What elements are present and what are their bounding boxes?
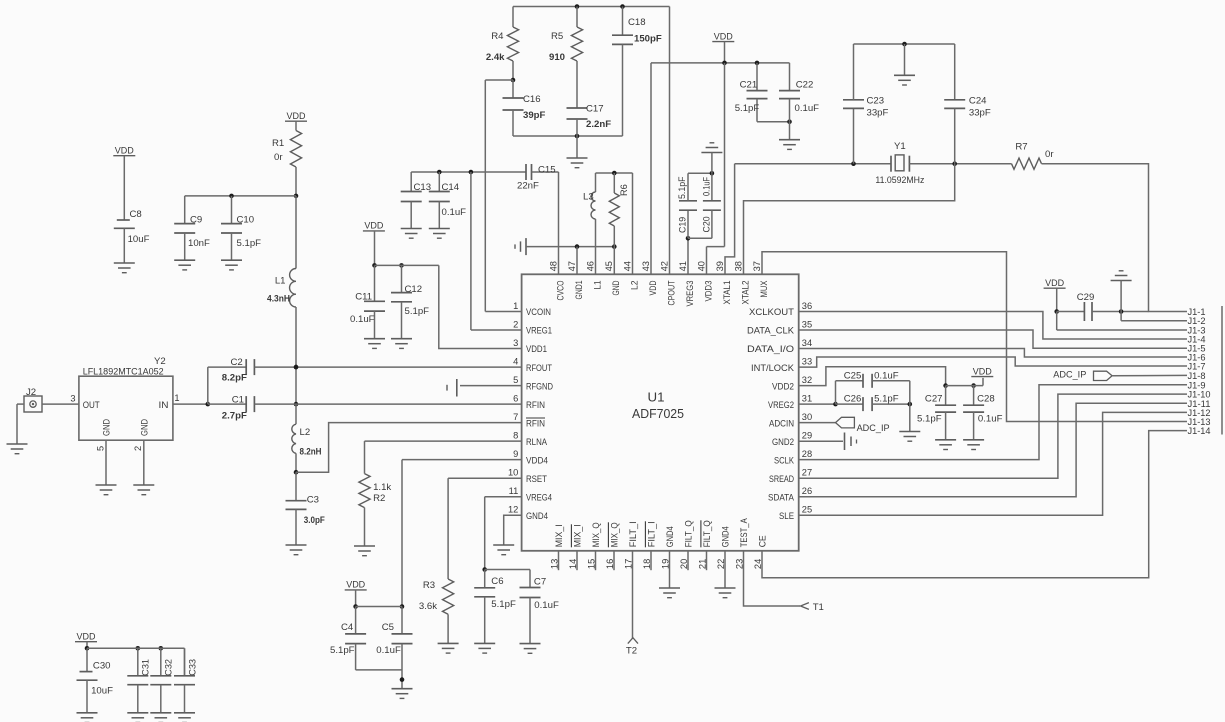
svg-text:5.1pF: 5.1pF — [237, 238, 262, 249]
svg-text:11.0592MHz: 11.0592MHz — [875, 175, 924, 186]
svg-text:C30: C30 — [93, 660, 111, 671]
svg-text:C26: C26 — [844, 394, 862, 405]
svg-text:R4: R4 — [491, 31, 504, 42]
svg-text:C1: C1 — [232, 394, 244, 405]
svg-text:C8: C8 — [130, 209, 142, 220]
svg-text:GND: GND — [611, 280, 622, 295]
svg-text:1: 1 — [513, 301, 518, 311]
svg-text:GND2: GND2 — [772, 437, 794, 448]
svg-text:ADC_IP: ADC_IP — [1053, 370, 1086, 381]
svg-text:C24: C24 — [969, 96, 987, 107]
svg-text:FILT_Q: FILT_Q — [684, 520, 695, 547]
svg-text:SREAD: SREAD — [769, 474, 794, 485]
svg-text:C11: C11 — [355, 291, 372, 302]
svg-text:J2: J2 — [26, 387, 36, 398]
svg-text:FILT_Q: FILT_Q — [702, 520, 713, 547]
svg-text:C7: C7 — [534, 576, 546, 587]
svg-text:5.1pF: 5.1pF — [874, 394, 899, 405]
svg-text:MUX: MUX — [759, 280, 770, 297]
svg-text:XTAL1: XTAL1 — [722, 281, 733, 305]
svg-text:0.1uF: 0.1uF — [874, 371, 899, 382]
svg-text:T1: T1 — [813, 602, 824, 613]
svg-text:45: 45 — [604, 261, 614, 271]
svg-text:DATA_CLK: DATA_CLK — [747, 326, 795, 337]
svg-text:VDD: VDD — [346, 580, 365, 591]
svg-text:VDD4: VDD4 — [526, 455, 549, 466]
svg-text:R2: R2 — [373, 493, 385, 504]
svg-text:27: 27 — [802, 468, 812, 478]
svg-text:C12: C12 — [405, 284, 423, 295]
svg-text:FILT_I: FILT_I — [628, 521, 639, 547]
svg-text:5.1pF: 5.1pF — [677, 176, 687, 199]
svg-text:30: 30 — [802, 412, 812, 422]
svg-text:LFL1892MTC1A052: LFL1892MTC1A052 — [83, 367, 164, 378]
svg-text:VREG4: VREG4 — [526, 492, 553, 503]
svg-text:VDD: VDD — [973, 366, 992, 377]
svg-text:10: 10 — [508, 468, 518, 478]
svg-text:Y2: Y2 — [154, 356, 166, 367]
svg-text:0.1uF: 0.1uF — [702, 176, 712, 196]
svg-text:Y1: Y1 — [894, 141, 906, 152]
svg-text:40: 40 — [696, 261, 706, 271]
svg-text:0.1uF: 0.1uF — [534, 600, 559, 611]
svg-text:5.1pF: 5.1pF — [917, 414, 942, 425]
svg-text:R6: R6 — [619, 184, 629, 196]
svg-text:10nF: 10nF — [188, 238, 210, 249]
svg-text:43: 43 — [641, 261, 651, 271]
svg-text:C6: C6 — [491, 576, 503, 587]
svg-text:1.1k: 1.1k — [373, 482, 391, 493]
svg-text:L3: L3 — [583, 192, 594, 203]
svg-text:GND: GND — [139, 419, 150, 436]
svg-text:RLNA: RLNA — [526, 437, 547, 448]
svg-text:C13: C13 — [414, 182, 432, 193]
svg-text:ADCIN: ADCIN — [769, 418, 794, 429]
svg-text:2.2nF: 2.2nF — [586, 119, 611, 130]
svg-text:GND1: GND1 — [574, 281, 585, 300]
svg-text:39pF: 39pF — [523, 110, 546, 121]
svg-text:C25: C25 — [844, 371, 862, 382]
svg-text:MIX_Q: MIX_Q — [610, 522, 621, 547]
svg-text:VDD1: VDD1 — [526, 344, 547, 355]
svg-text:47: 47 — [567, 261, 577, 271]
svg-text:C32: C32 — [164, 659, 174, 676]
svg-text:5.1pF: 5.1pF — [330, 645, 355, 656]
svg-text:GND4: GND4 — [721, 526, 732, 548]
svg-text:42: 42 — [659, 261, 669, 271]
svg-text:C23: C23 — [867, 96, 885, 107]
svg-text:22nF: 22nF — [517, 181, 539, 192]
svg-text:SLE: SLE — [779, 511, 794, 522]
svg-text:33: 33 — [802, 357, 812, 367]
svg-text:C10: C10 — [237, 215, 255, 226]
svg-text:8.2nH: 8.2nH — [300, 447, 322, 458]
svg-text:33pF: 33pF — [867, 108, 889, 119]
svg-text:C33: C33 — [187, 659, 197, 676]
svg-text:L1: L1 — [275, 276, 286, 287]
svg-text:48: 48 — [548, 261, 558, 271]
svg-text:2.4k: 2.4k — [486, 52, 505, 63]
svg-text:0.1uF: 0.1uF — [442, 207, 467, 218]
svg-text:DATA_I/O: DATA_I/O — [747, 344, 794, 355]
svg-text:VDD: VDD — [714, 31, 733, 42]
svg-text:INT/LOCK: INT/LOCK — [751, 363, 795, 374]
svg-text:FILT_I: FILT_I — [647, 521, 658, 547]
svg-text:C21: C21 — [740, 79, 758, 90]
svg-text:26: 26 — [802, 486, 812, 496]
svg-text:RFGND: RFGND — [526, 381, 553, 392]
svg-text:31: 31 — [802, 394, 812, 404]
svg-text:C5: C5 — [382, 622, 394, 633]
svg-text:OUT: OUT — [83, 400, 100, 411]
svg-text:MIX_Q: MIX_Q — [591, 522, 602, 547]
svg-text:41: 41 — [678, 261, 688, 271]
svg-text:C14: C14 — [442, 182, 460, 193]
svg-text:0.1uF: 0.1uF — [795, 103, 820, 114]
svg-text:32: 32 — [802, 375, 812, 385]
svg-text:CE: CE — [758, 535, 769, 547]
svg-text:4.3nH: 4.3nH — [267, 294, 290, 305]
svg-text:C20: C20 — [702, 216, 712, 232]
svg-text:C4: C4 — [341, 622, 354, 633]
svg-text:5: 5 — [513, 375, 518, 385]
svg-text:C9: C9 — [190, 215, 202, 226]
svg-text:C3: C3 — [307, 495, 319, 506]
svg-text:5: 5 — [95, 446, 105, 451]
svg-text:XTAL2: XTAL2 — [741, 281, 752, 305]
svg-text:XCLKOUT: XCLKOUT — [749, 307, 794, 318]
svg-text:6: 6 — [513, 394, 518, 404]
svg-text:10uF: 10uF — [128, 234, 150, 245]
svg-text:SDATA: SDATA — [768, 492, 795, 503]
svg-text:150pF: 150pF — [634, 34, 662, 45]
svg-text:C29: C29 — [1077, 292, 1095, 303]
svg-text:CPOUT: CPOUT — [667, 280, 678, 305]
svg-text:C27: C27 — [925, 394, 943, 405]
svg-text:7: 7 — [513, 412, 518, 422]
svg-text:3.6k: 3.6k — [419, 601, 437, 612]
svg-text:0r: 0r — [274, 152, 283, 163]
svg-text:0.1uF: 0.1uF — [978, 414, 1003, 425]
svg-text:ADC_IP: ADC_IP — [857, 423, 890, 434]
svg-text:0r: 0r — [1045, 149, 1054, 160]
svg-text:T2: T2 — [626, 646, 637, 657]
svg-text:3.0pF: 3.0pF — [304, 515, 325, 526]
svg-text:R7: R7 — [1015, 142, 1027, 153]
svg-text:12: 12 — [508, 505, 518, 515]
svg-text:0.1uF: 0.1uF — [350, 314, 375, 325]
svg-text:5.1pF: 5.1pF — [735, 103, 760, 114]
svg-text:VDD: VDD — [648, 280, 659, 295]
svg-text:9: 9 — [513, 449, 518, 459]
svg-text:46: 46 — [585, 261, 595, 271]
svg-text:RFIN: RFIN — [526, 400, 545, 411]
svg-text:C15: C15 — [538, 164, 556, 175]
svg-text:VDD: VDD — [364, 221, 383, 232]
svg-text:10uF: 10uF — [91, 686, 113, 697]
svg-text:CVCO: CVCO — [556, 281, 567, 301]
svg-text:5.1pF: 5.1pF — [405, 306, 430, 317]
svg-text:4: 4 — [513, 357, 518, 367]
svg-text:L2: L2 — [300, 427, 311, 438]
svg-text:C2: C2 — [231, 357, 243, 368]
svg-text:0.1uF: 0.1uF — [376, 645, 401, 656]
svg-text:C22: C22 — [796, 79, 814, 90]
svg-text:VDD: VDD — [287, 111, 306, 122]
svg-text:GND: GND — [102, 419, 113, 436]
svg-text:RFIN: RFIN — [526, 418, 545, 429]
svg-text:VDD2: VDD2 — [772, 381, 794, 392]
svg-text:2.7pF: 2.7pF — [222, 410, 247, 421]
svg-text:TEST_A: TEST_A — [739, 518, 750, 547]
svg-text:1: 1 — [174, 393, 179, 403]
svg-text:L1: L1 — [593, 281, 604, 290]
svg-text:25: 25 — [802, 505, 812, 515]
svg-text:8: 8 — [513, 431, 518, 441]
svg-text:R3: R3 — [423, 580, 435, 591]
svg-text:2: 2 — [513, 320, 518, 330]
svg-text:VREG3: VREG3 — [685, 281, 696, 307]
svg-text:38: 38 — [733, 261, 743, 271]
svg-text:VREG1: VREG1 — [526, 326, 552, 337]
svg-text:34: 34 — [802, 338, 812, 348]
svg-text:44: 44 — [622, 261, 632, 271]
svg-text:28: 28 — [802, 449, 812, 459]
svg-text:MIX_I: MIX_I — [573, 524, 584, 547]
svg-text:37: 37 — [752, 261, 762, 271]
svg-text:C17: C17 — [586, 104, 604, 115]
svg-text:C28: C28 — [977, 394, 995, 405]
svg-text:8.2pF: 8.2pF — [222, 373, 247, 384]
svg-text:C18: C18 — [628, 17, 646, 28]
svg-text:L2: L2 — [630, 281, 641, 291]
svg-text:11: 11 — [509, 486, 519, 496]
svg-text:R5: R5 — [551, 31, 563, 42]
svg-text:RFOUT: RFOUT — [526, 363, 552, 374]
svg-text:MIX_I: MIX_I — [554, 524, 565, 547]
svg-text:C19: C19 — [678, 217, 688, 233]
svg-text:C16: C16 — [523, 94, 541, 105]
svg-text:910: 910 — [549, 52, 565, 63]
svg-text:U1: U1 — [648, 390, 665, 405]
svg-text:3: 3 — [70, 394, 75, 404]
svg-text:VDD: VDD — [1045, 278, 1064, 289]
svg-text:39: 39 — [715, 261, 725, 271]
svg-text:C31: C31 — [141, 659, 151, 676]
svg-text:3: 3 — [513, 338, 518, 348]
svg-text:GND4: GND4 — [665, 526, 676, 548]
svg-text:33pF: 33pF — [969, 108, 991, 119]
svg-text:IN: IN — [159, 400, 169, 411]
svg-text:36: 36 — [802, 301, 812, 311]
svg-text:35: 35 — [802, 320, 812, 330]
svg-text:RSET: RSET — [526, 474, 547, 485]
svg-text:VDD: VDD — [115, 146, 134, 157]
svg-text:VDD: VDD — [77, 632, 96, 643]
svg-text:VREG2: VREG2 — [768, 400, 794, 411]
svg-text:ADF7025: ADF7025 — [632, 406, 684, 421]
svg-text:VCOIN: VCOIN — [526, 307, 551, 318]
svg-text:5.1pF: 5.1pF — [491, 599, 516, 610]
svg-text:GND4: GND4 — [526, 511, 549, 522]
svg-text:2: 2 — [133, 446, 143, 451]
svg-text:29: 29 — [802, 431, 812, 441]
svg-text:SCLK: SCLK — [774, 455, 794, 466]
svg-text:R1: R1 — [272, 138, 284, 149]
svg-text:J1-14: J1-14 — [1188, 425, 1211, 436]
svg-text:VDD3: VDD3 — [704, 281, 715, 302]
